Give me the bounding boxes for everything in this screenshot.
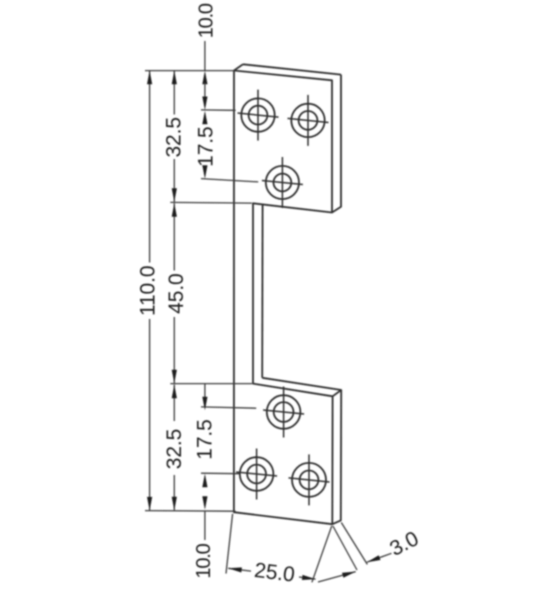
hole top-right [291,104,324,137]
plate top-left thickness corner edge [234,64,243,70]
extension line 3.0 front [333,526,357,570]
dim 3.0 [318,572,356,582]
extension line top edge [145,70,234,72]
svg-text:17.5: 17.5 [194,419,217,459]
plate back right edge (top flange) [332,75,341,213]
hole bottom-middle [267,395,301,429]
extension line hole row 2 [201,179,258,182]
extension line bottom step [170,383,252,385]
notch left back edge [261,205,263,378]
svg-text:32.5: 32.5 [163,429,186,469]
svg-text:10.0: 10.0 [193,543,215,578]
hole bottom-left [240,457,274,491]
extension line hole row 1 [201,109,236,111]
svg-text:45.0: 45.0 [165,273,188,313]
dim line 110.0 [149,71,151,263]
hole top-left [241,98,274,131]
dim line 32.5 bottom [173,385,175,421]
dim 17.5 top [202,111,207,125]
extension line 3.0 back [341,523,367,565]
dim 17.5 bottom leader [204,384,206,398]
hole bottom-right [292,463,326,497]
svg-text:25.0: 25.0 [253,559,296,587]
leader 10.0 bottom [204,511,206,540]
plate back right edge (bottom flange) [332,390,341,524]
extension line hole row 4 [201,472,239,475]
extension line 25.0 right slant [312,526,332,583]
hole top-middle [266,166,299,199]
dim line 45.0 [173,203,175,270]
extension line 25.0 left slant [226,514,233,574]
dim 10.0 top arrows [202,71,207,85]
svg-text:10.0: 10.0 [195,3,217,38]
leader 10.0 top [204,41,206,70]
svg-text:17.5: 17.5 [194,126,217,166]
dim 10.0 bottom arrows [202,474,207,488]
svg-text:110.0: 110.0 [136,266,159,317]
extension line top step [170,201,252,204]
extension line hole row 3 [201,407,256,408]
bottom flange back top edge [262,378,341,397]
plate front face outline [234,71,333,525]
svg-text:32.5: 32.5 [163,117,186,157]
plate back top edge [243,64,341,74]
extension line bottom edge [145,510,236,513]
dim line 32.5 top [173,71,175,115]
dim 25.0 [228,568,251,571]
